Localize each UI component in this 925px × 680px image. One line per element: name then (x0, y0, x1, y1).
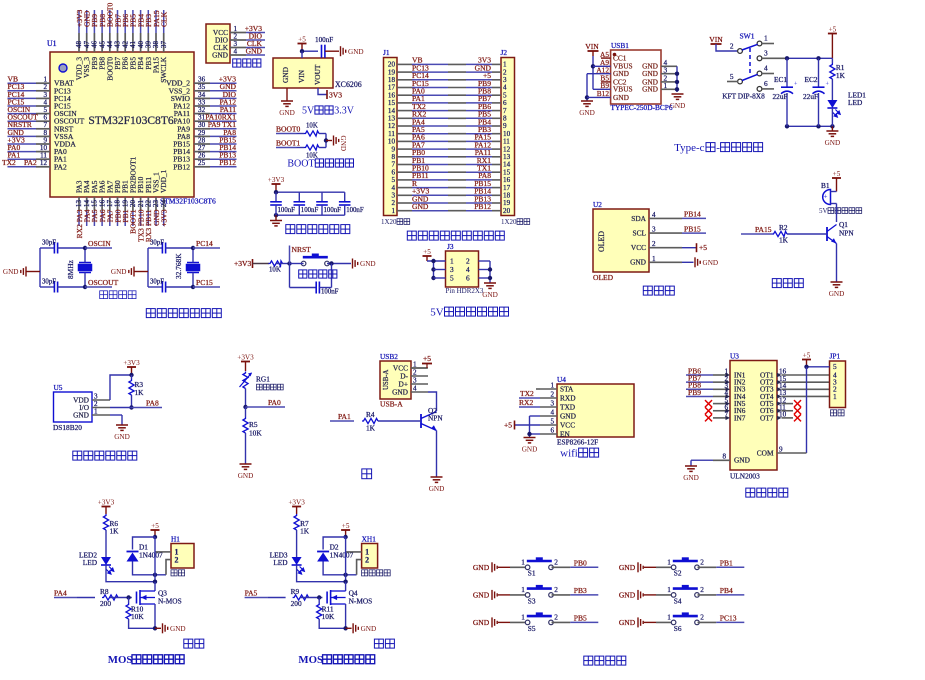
svg-text:J2: J2 (501, 48, 508, 57)
crystal 8MHz (79, 263, 92, 273)
capacitor 30pF bottom (40, 286, 54, 288)
label 白色底座 (362, 570, 391, 576)
resistor R9 200 (293, 595, 309, 600)
svg-text:Pin HDR2X3: Pin HDR2X3 (446, 287, 484, 295)
svg-text:1X20: 1X20 (381, 218, 397, 226)
svg-text:GND: GND (348, 48, 364, 56)
svg-text:4: 4 (764, 64, 768, 73)
svg-text:STA: STA (560, 384, 574, 393)
net wire PB14 (682, 217, 706, 219)
svg-text:+3V3: +3V3 (98, 498, 115, 506)
U1 pin 35 VSS_2 wire (194, 90, 210, 92)
diode D2 1N4007 (323, 537, 346, 550)
svg-text:CLK: CLK (160, 11, 169, 27)
SW1 pin 2 (738, 49, 743, 54)
svg-text:5V: 5V (819, 207, 828, 215)
svg-text:+5: +5 (829, 25, 837, 33)
node PC14 (191, 246, 195, 250)
svg-text:1K: 1K (779, 236, 789, 245)
caption fengmingqi (772, 279, 803, 288)
svg-text:GND: GND (392, 387, 409, 396)
svg-text:ULN2003: ULN2003 (730, 472, 760, 481)
U1 pin 20 PB2BOOT1 wire (132, 197, 134, 211)
U1 pin 5 OSCIN wire (8, 113, 37, 115)
U1 pin 17 PA7 wire (109, 197, 111, 211)
label 1X20 paizhen left (381, 218, 410, 226)
svg-text:VIN: VIN (585, 42, 599, 51)
svg-text:PA2: PA2 (24, 158, 37, 167)
svg-text:1K: 1K (110, 527, 120, 536)
svg-text:R9: R9 (291, 587, 300, 596)
gnd pin wire (286, 88, 288, 101)
svg-text:PB0: PB0 (574, 559, 587, 568)
svg-text:STM32F103C8T6: STM32F103C8T6 (160, 197, 216, 206)
svg-text:100nF: 100nF (321, 289, 339, 296)
svg-text:TX2: TX2 (2, 158, 16, 167)
capacitor 30pF bottom (148, 286, 162, 288)
connector JP1 body (830, 361, 846, 408)
connector USB1 TYPE-C body (611, 50, 661, 104)
svg-text:VIN: VIN (297, 69, 306, 83)
node NRST wire (287, 261, 291, 265)
svg-text:PB14: PB14 (684, 210, 701, 219)
node gate junction (126, 595, 130, 599)
svg-text:22uF: 22uF (803, 92, 818, 101)
node junction (329, 261, 333, 265)
U1 pin 37 SWCLK wire (163, 10, 165, 33)
label 1X20 paizhen right (501, 218, 530, 226)
SW1 pin 1 wire (757, 41, 762, 46)
svg-text:TX2: TX2 (520, 389, 534, 398)
resistor R1 1K (831, 58, 833, 63)
power flag +3V3 (123, 359, 140, 375)
no-connect X (705, 407, 712, 414)
svg-text:N-MOS: N-MOS (349, 597, 373, 606)
module U4 ESP8266-12F body (557, 384, 634, 437)
H1 pin 1 wire (155, 551, 171, 553)
svg-text:PB12: PB12 (474, 202, 491, 211)
svg-text:1: 1 (521, 585, 525, 594)
svg-text:VCC: VCC (560, 420, 575, 429)
svg-text:+5: +5 (833, 170, 841, 178)
SW1 pin 4 wire (757, 71, 762, 76)
net wire PB7 (686, 381, 713, 383)
net wire PB6 (686, 374, 713, 376)
power port 3V3 output wire (318, 88, 327, 95)
svg-text:+5: +5 (298, 35, 306, 43)
power flag +5 (832, 170, 841, 192)
U1 pin 19 PB1 wire (124, 197, 126, 211)
svg-text:U3: U3 (730, 352, 739, 361)
net wire PA8 (129, 405, 133, 409)
U1 pin 30 PA9 wire (194, 128, 210, 130)
resistor R10 10K (128, 598, 130, 604)
svg-text:3V3: 3V3 (329, 91, 342, 100)
svg-text:JP1: JP1 (830, 352, 841, 361)
svg-text:2: 2 (700, 585, 704, 594)
svg-text:MOS: MOS (108, 654, 133, 666)
wire led to drain node (297, 565, 346, 582)
wire junction to gnd (325, 134, 327, 148)
capacitor 100nF #4 (344, 192, 346, 202)
svg-text:R2: R2 (779, 223, 788, 232)
resistor R7 1K (294, 514, 299, 530)
svg-text:GND: GND (619, 618, 636, 627)
svg-text:PA1: PA1 (338, 412, 351, 421)
svg-text:S1: S1 (528, 569, 536, 578)
svg-text:1: 1 (391, 207, 395, 215)
filter cap bottom rail wire (276, 214, 345, 216)
gnd (682, 261, 694, 263)
gnd (690, 460, 692, 466)
gnd (341, 46, 364, 56)
svg-text:100nF: 100nF (301, 207, 319, 214)
U1 pin 47 VSS_3 wire (86, 10, 88, 33)
svg-text:U4: U4 (557, 375, 566, 384)
capacitor 100nF wire loop (289, 264, 291, 288)
net wire PA1 (330, 420, 354, 422)
svg-text:GND: GND (522, 446, 538, 454)
U1 pin 22 PB11 wire (147, 197, 149, 211)
svg-text:COM: COM (757, 449, 774, 458)
svg-text:GND: GND (212, 50, 229, 59)
U1 pin 28 PB15 wire (194, 143, 210, 145)
svg-text:1: 1 (764, 34, 768, 43)
svg-text:B1: B1 (821, 181, 830, 190)
crystal circuit 8MHz left rail wire (39, 248, 41, 287)
svg-text:RG1: RG1 (256, 375, 270, 384)
svg-text:10K: 10K (249, 429, 262, 438)
label 5V youyuan fengmingqi (819, 207, 862, 215)
svg-text:+5: +5 (699, 243, 707, 252)
svg-text:GND: GND (429, 485, 445, 493)
power port +5 on VCC (427, 367, 429, 369)
gnd (353, 623, 376, 633)
svg-text:GND: GND (630, 258, 647, 267)
gnd (353, 259, 376, 269)
svg-text:2: 2 (700, 558, 704, 567)
gnd (111, 267, 134, 277)
display U2 OLED body (593, 209, 649, 272)
net wire PB9 (686, 395, 713, 397)
U1 pin 7 NRST wire (8, 128, 37, 130)
gnd (238, 464, 254, 480)
svg-text:PB4: PB4 (720, 586, 733, 595)
svg-text:Type-c: Type-c (674, 142, 704, 154)
bottom rail wire (787, 125, 832, 127)
right bus wire (479, 260, 491, 262)
svg-text:100nF: 100nF (346, 207, 364, 214)
gnd (829, 282, 845, 298)
caption deng (362, 469, 372, 479)
svg-text:VIN: VIN (709, 35, 723, 44)
svg-text:DS18B20: DS18B20 (53, 423, 82, 432)
transistor Q1 NPN (827, 225, 837, 244)
resistor 10K BOOT0 (304, 131, 319, 136)
switch arm 2-1 (742, 44, 758, 50)
svg-text:OLED: OLED (597, 231, 606, 252)
svg-text:J1: J1 (383, 48, 390, 57)
wire buzzer to Q1 (836, 204, 838, 223)
gnd (831, 126, 833, 131)
svg-text:37: 37 (160, 41, 168, 49)
U1 pin 12 PA2 wire (8, 166, 37, 168)
U1 pin 36 VDD_2 wire (194, 82, 210, 84)
gnd (279, 101, 295, 117)
power flag +5 (802, 351, 811, 367)
gnd (3, 267, 26, 277)
svg-text:NPN: NPN (839, 229, 854, 238)
gnd (275, 215, 277, 220)
gnd (579, 101, 595, 117)
resistor R5 10K (245, 407, 247, 417)
svg-text:MOS: MOS (298, 654, 323, 666)
svg-text:GND: GND (473, 563, 490, 572)
svg-text:22uF: 22uF (773, 92, 788, 101)
svg-text:32.768K: 32.768K (174, 253, 183, 279)
svg-text:IN7: IN7 (734, 413, 746, 422)
pin stub CC1 (601, 57, 611, 59)
svg-text:wifi: wifi (560, 448, 578, 460)
svg-text:SCL: SCL (633, 229, 647, 238)
XH1 pin 2 wire (357, 560, 362, 575)
capacitor 100nF #2 (298, 192, 300, 202)
SW1 pin 3 wire (757, 56, 762, 61)
svg-text:N-MOS: N-MOS (158, 597, 182, 606)
resistor R11 10K (318, 598, 320, 604)
net wire PB0 (570, 566, 598, 568)
svg-text:PA5: PA5 (245, 589, 258, 598)
svg-text:PB9: PB9 (688, 388, 701, 397)
svg-text:GND: GND (279, 109, 295, 117)
capacitor 30pF top (148, 247, 162, 249)
svg-text:BOOT1: BOOT1 (276, 139, 301, 148)
svg-text:2: 2 (730, 42, 734, 51)
U1 pin 1 VBAT wire (8, 82, 37, 84)
svg-text:+3V3: +3V3 (288, 498, 305, 506)
mosfet Q4 N-MOS (327, 590, 346, 605)
U1 pin 21 PB10 wire (140, 197, 142, 211)
U1 pin 25 PB12 wire (194, 166, 210, 168)
capacitor 100nF #1 (275, 192, 277, 202)
U1 pin 11 PA1 wire (8, 158, 37, 160)
svg-text:OSCOUT: OSCOUT (88, 278, 119, 287)
power flag +3V3 (237, 353, 254, 371)
svg-text:GND: GND (703, 259, 719, 267)
svg-text:RX2: RX2 (519, 398, 533, 407)
caption danpianji zuixiao xitong (146, 309, 221, 318)
svg-text:25: 25 (198, 159, 206, 167)
svg-text:PB1: PB1 (720, 559, 733, 568)
svg-text:1: 1 (667, 558, 671, 567)
svg-text:30pF: 30pF (150, 240, 164, 247)
svg-text:STM32F103C8T6: STM32F103C8T6 (88, 115, 174, 127)
svg-text:SDA: SDA (631, 214, 646, 223)
svg-text:KFT DIP-8X8: KFT DIP-8X8 (722, 92, 765, 101)
U1 pin 45 PB8 wire (101, 10, 103, 33)
diode D1 1N4007 (133, 537, 156, 550)
wire VIN to pin2 (716, 44, 737, 51)
resistor 10K BOOT1 (304, 145, 319, 150)
no-connect X (794, 400, 801, 407)
net wire PB5 (570, 621, 598, 623)
photoresistor RG1 (243, 372, 248, 389)
net wire PB3 (570, 594, 598, 596)
U1 pin 33 PA12 wire (194, 105, 210, 107)
svg-text:+5: +5 (151, 522, 159, 530)
switch arm 5-4 (742, 74, 758, 80)
U1 pin 6 OSCOUT wire (8, 120, 37, 122)
no-connect X (794, 407, 801, 414)
caption 风扇 (374, 639, 394, 648)
svg-text:2: 2 (554, 613, 558, 622)
svg-text:EC1: EC1 (774, 75, 787, 84)
svg-text:GND: GND (734, 456, 751, 465)
svg-text:5V: 5V (302, 106, 315, 117)
wire VBUS bus (592, 56, 594, 89)
U1 pin 15 PA5 wire (93, 197, 95, 211)
svg-text:USB1: USB1 (611, 41, 629, 50)
svg-text:+3V3: +3V3 (237, 353, 254, 361)
svg-text:PA15: PA15 (755, 225, 772, 234)
svg-text:LED: LED (83, 558, 98, 567)
power flag +3V3 (98, 498, 115, 514)
U1 pin 43 PB7 wire (117, 10, 119, 33)
U1 pin 2 PC13 wire (8, 90, 37, 92)
caption wifi mokuai (560, 448, 598, 460)
power flag +5 (151, 522, 160, 537)
regulator XC6206 body (273, 58, 333, 88)
svg-text:GND: GND (613, 93, 630, 102)
label dianji (831, 410, 845, 416)
node gate junction (317, 595, 321, 599)
caption 加热 (184, 639, 204, 648)
wire emitter to gnd (436, 431, 438, 478)
wire GND pin to Q2 collector (428, 392, 437, 411)
svg-text:3.3V: 3.3V (334, 106, 355, 117)
svg-text:+5: +5 (803, 351, 811, 359)
svg-text:U1: U1 (47, 39, 57, 48)
svg-text:OSCIN: OSCIN (88, 239, 111, 248)
svg-text:S2: S2 (674, 569, 682, 578)
label guangmin dianzu (257, 384, 284, 390)
label 接口 (171, 570, 185, 576)
node OSCIN (83, 246, 87, 250)
svg-text:PB12: PB12 (173, 162, 190, 171)
H1 pin 2 wire (166, 560, 171, 575)
caption xiazaikou (233, 59, 261, 67)
svg-text:U2: U2 (593, 200, 602, 209)
capacitor 100nF (322, 45, 325, 58)
no-connect X (705, 414, 712, 421)
svg-text:GND: GND (619, 591, 636, 600)
U1 pin 10 PA0 wire (8, 151, 37, 153)
dashed link (749, 48, 751, 76)
wire GND/EN bus (530, 415, 541, 417)
svg-text:VOUT: VOUT (313, 64, 322, 85)
svg-text:GND: GND (825, 139, 841, 147)
svg-text:OLED: OLED (593, 273, 614, 282)
net label BOOT1 wire (276, 147, 297, 149)
wire +5 vertical to drain (345, 537, 347, 582)
connector USB2 USB-A body (380, 361, 411, 399)
power flag +3V3 (288, 498, 305, 514)
resistor 10K (269, 261, 283, 266)
svg-text:PC15: PC15 (196, 278, 213, 287)
U1 pin 23 VSS_1 wire (155, 197, 157, 211)
svg-text:+3V3: +3V3 (160, 209, 169, 226)
caption jingzhen dianlu (100, 291, 136, 299)
svg-text:1X20: 1X20 (501, 218, 517, 226)
svg-text:GND: GND (829, 290, 845, 298)
gnd (522, 438, 538, 454)
resistor R8 200 (102, 595, 118, 600)
net wire PB4 (716, 594, 744, 596)
power flag +5 (341, 522, 350, 537)
svg-text:100nF: 100nF (324, 207, 342, 214)
svg-text:U5: U5 (54, 383, 63, 392)
capacitor EC2 22uF (818, 58, 820, 87)
svg-text:GND: GND (360, 260, 376, 268)
no-connect X (705, 400, 712, 407)
sensor U5 DS18B20 body (54, 392, 93, 422)
svg-text:PB12: PB12 (219, 158, 236, 167)
caption bujin dianji (746, 488, 788, 497)
no-connect X (794, 414, 801, 421)
svg-text:10K: 10K (306, 123, 318, 130)
svg-text:GND: GND (482, 291, 498, 299)
svg-text:4: 4 (234, 47, 238, 55)
svg-text:USB2: USB2 (380, 352, 398, 361)
svg-text:EC2: EC2 (805, 75, 818, 84)
svg-text:2: 2 (554, 585, 558, 594)
svg-text:GND: GND (412, 202, 429, 211)
svg-text:S4: S4 (674, 596, 682, 605)
svg-text:ESP8266-12F: ESP8266-12F (557, 438, 598, 447)
mosfet Q3 N-MOS (137, 590, 156, 605)
svg-text:GND: GND (560, 411, 577, 420)
svg-text:10K: 10K (322, 612, 335, 621)
svg-text:PB5: PB5 (574, 614, 587, 623)
wire source to gnd rail (345, 604, 347, 628)
svg-text:2: 2 (175, 556, 179, 565)
svg-text:5: 5 (450, 273, 454, 282)
svg-text:S3: S3 (528, 596, 536, 605)
svg-text:GND: GND (114, 433, 130, 441)
svg-text:8: 8 (722, 453, 726, 461)
pushbutton reset (301, 254, 329, 266)
filter cap top rail wire (276, 191, 345, 193)
gnd (670, 94, 686, 110)
led LED1 (827, 100, 840, 117)
pin stub CC2 (601, 81, 611, 83)
svg-text:GND: GND (111, 268, 127, 276)
svg-text:1: 1 (521, 613, 525, 622)
svg-text:+5: +5 (423, 248, 431, 256)
caption BOOT shezhi dianlu (287, 159, 353, 170)
driver U3 ULN2003 body (730, 361, 777, 471)
svg-text:30pF: 30pF (150, 279, 164, 286)
svg-text:2: 2 (700, 613, 704, 622)
U1 pin 44 BOOT0 wire (109, 10, 111, 33)
capacitor 100nF #3 (321, 192, 323, 202)
net wire PB8 (686, 388, 713, 390)
top rail wire (787, 57, 832, 59)
wire GND bus left (587, 73, 611, 75)
U1 pin 34 SWIO wire (194, 97, 210, 99)
svg-text:+3V3: +3V3 (234, 259, 251, 268)
svg-text:GND: GND (473, 591, 490, 600)
